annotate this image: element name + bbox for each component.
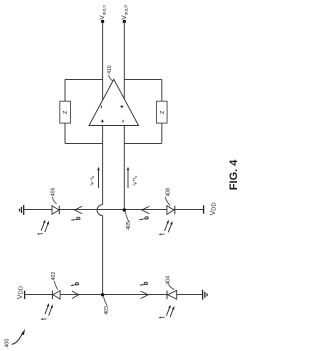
wire feedback bottom right <box>124 143 162 145</box>
wire Vout_n vertical <box>102 22 104 101</box>
wire rail1 diode406 to vdd <box>59 209 203 211</box>
wire inverting input left (to node 403) upper part <box>102 126 104 205</box>
current chevron rail2 right (Ib) <box>141 291 149 298</box>
light arrows into 404 <box>166 307 169 316</box>
wire left input lower part <box>102 216 104 295</box>
light arrows into 402 <box>45 306 48 315</box>
wire hop over rail <box>97 205 103 216</box>
wire feedback top left <box>65 79 103 81</box>
wire feedback right lower branch <box>161 123 163 143</box>
tiny label Ip rail1 left <box>71 219 80 220</box>
junction node 405 <box>123 208 126 211</box>
leader for 402 <box>54 281 58 290</box>
svg-text:VDD: VDD <box>210 202 218 215</box>
wire rail1 ground to diode 406 <box>24 209 52 211</box>
wire right input (to node 405) <box>123 126 125 211</box>
svg-text:VDD: VDD <box>17 286 25 299</box>
wire feedback bottom left <box>65 143 103 145</box>
resistor Z left <box>60 101 71 123</box>
current chevron rail1 right (Ib) <box>142 206 150 213</box>
op-amp input polarity plus (left) <box>101 120 104 123</box>
wire feedback left lower branch <box>64 123 66 143</box>
tiny label Ip rail2 left <box>71 284 79 285</box>
leader for 408 <box>165 197 170 206</box>
photodiode 402 <box>51 291 53 300</box>
node Vout_p terminal dot <box>123 20 126 23</box>
op-amp 410 triangle <box>89 79 139 125</box>
resistor Z right <box>156 101 167 123</box>
svg-text:408: 408 <box>165 188 171 197</box>
current chevron rail1 left (Ip) <box>75 206 82 213</box>
junction node 403 <box>101 293 104 296</box>
vdd terminal rail2 left <box>24 291 26 299</box>
op-amp output polarity minus (left) <box>100 106 102 109</box>
light arrows into 406 <box>41 222 44 231</box>
svg-text:Z: Z <box>160 110 166 114</box>
svg-text:400: 400 <box>4 339 10 348</box>
svg-text:402: 402 <box>51 272 57 281</box>
svg-text:405: 405 <box>126 221 132 230</box>
svg-text:Z: Z <box>63 110 69 114</box>
ground rail1 left <box>20 205 24 215</box>
svg-text:406: 406 <box>50 187 56 196</box>
svg-text:410: 410 <box>107 65 113 74</box>
wire feedback left upper branch <box>64 80 66 102</box>
current arrow left input <box>98 170 100 188</box>
leader arrow for 400 <box>12 334 23 345</box>
svg-text:FIG. 4: FIG. 4 <box>228 159 240 190</box>
node Vout_n terminal dot <box>101 20 104 23</box>
tiny label Ib rail1 right <box>139 219 148 220</box>
svg-text:403: 403 <box>104 306 110 315</box>
vdd terminal rail1 right <box>203 205 205 213</box>
leader for 406 <box>52 197 56 204</box>
current arrow right input <box>127 170 129 188</box>
op-amp input polarity minus (right) <box>122 120 124 123</box>
wire Vout_p vertical <box>123 22 125 101</box>
wire feedback right upper branch <box>161 80 163 102</box>
light arrows into 408 <box>165 223 168 232</box>
photodiode 406 <box>52 206 59 215</box>
leader for 405 <box>125 212 129 222</box>
op-amp output polarity plus (right) <box>120 105 123 108</box>
leader for 404 <box>169 284 175 289</box>
svg-text:404: 404 <box>166 276 172 285</box>
current chevron rail2 left (Ip) <box>72 291 79 298</box>
wire rail2 <box>25 294 203 296</box>
photodiode 408 <box>167 206 174 215</box>
leader for 410 <box>109 75 113 81</box>
wire feedback top right <box>124 79 162 81</box>
tiny label Ib rail2 right <box>140 284 148 285</box>
ground rail2 right <box>203 290 208 300</box>
leader for 403 <box>103 297 107 306</box>
photodiode 404 <box>166 291 168 300</box>
